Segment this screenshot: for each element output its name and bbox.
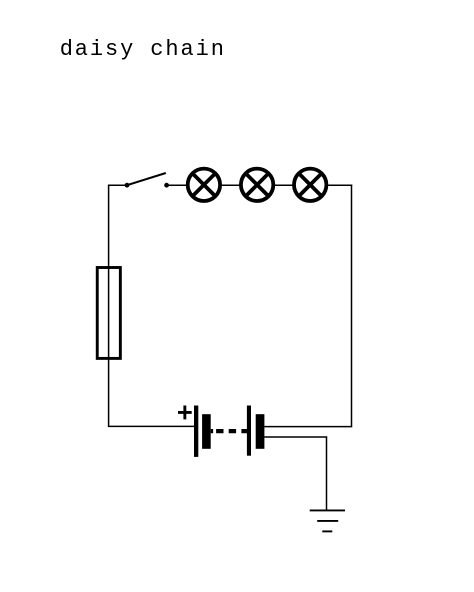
svg-text:daisy chain: daisy chain	[60, 37, 226, 62]
lamp L2	[241, 169, 273, 201]
lamp L1	[188, 169, 220, 201]
wire left vertical	[108, 185, 110, 426]
wire top left stub	[108, 184, 127, 186]
wire battery negative to right vertical	[264, 426, 352, 428]
lamp L3	[294, 169, 326, 201]
wire lamp L1 to lamp L2	[220, 184, 241, 186]
wire right vertical	[351, 185, 353, 427]
battery BT1 plus label	[178, 406, 192, 420]
fuse F1	[97, 268, 120, 359]
switch S1 contact dot left	[125, 183, 130, 188]
ground GND bar 1	[310, 509, 345, 511]
wire bottom from left corner to battery positive	[108, 425, 194, 427]
ground GND bar 2	[317, 520, 338, 522]
battery BT1 dashed cell link	[211, 429, 248, 433]
battery BT1 negative short plate (cell n)	[256, 414, 265, 449]
battery BT1 negative short plate (cell 1)	[202, 414, 211, 449]
switch S1 blade	[127, 173, 166, 185]
wire lamp L3 to top right corner	[326, 184, 352, 186]
battery BT1 positive long plate (cell n)	[247, 406, 251, 456]
wire battery negative to ground	[264, 437, 326, 510]
battery BT1 positive long plate	[194, 406, 198, 457]
switch S1 contact dot right	[164, 183, 169, 188]
wire switch to lamp L1	[167, 184, 188, 186]
ground GND bar 3	[322, 530, 332, 532]
wire lamp L2 to lamp L3	[273, 184, 294, 186]
